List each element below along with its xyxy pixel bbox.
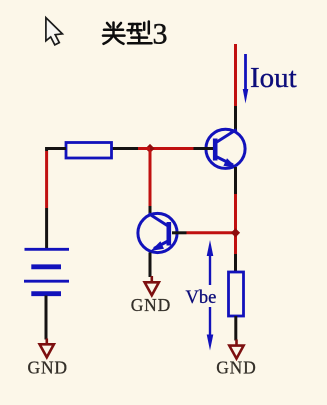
wire: to R2 (black) <box>234 254 237 272</box>
svg-text:GND: GND <box>28 358 68 378</box>
svg-text:3: 3 <box>153 18 168 51</box>
wire: Q2 base pin (black) <box>172 231 187 234</box>
wire: R1 right segment (black) <box>112 147 139 150</box>
wire: emitter net through J2 (red) <box>234 194 237 254</box>
wire: left branch lower (black) <box>45 208 48 249</box>
svg-text:Iout: Iout <box>250 62 297 94</box>
wire: Q2 emitter pin (black) <box>149 253 152 278</box>
annotation arrow Vbe upper <box>207 240 214 285</box>
wire: into junction J1 (red) <box>138 147 150 150</box>
wire: Q1 base pin (black) <box>194 147 214 150</box>
wire: Q2 collector pin (black) <box>149 206 152 215</box>
node junction J2 <box>231 228 240 237</box>
annotation arrow Vbe lower <box>207 307 214 351</box>
wire: R2 to ground (black) <box>234 316 237 341</box>
wire: Q1 collector pin (black) <box>234 106 237 131</box>
wire: top supply (red) <box>234 44 237 106</box>
svg-text:GND: GND <box>131 295 171 315</box>
svg-text:GND: GND <box>216 358 256 378</box>
title text 类型3 (drawn strokes) <box>103 22 152 44</box>
resistor R1 <box>66 143 112 159</box>
ground GND1 <box>40 339 54 358</box>
mouse cursor <box>46 18 63 45</box>
wire: battery to ground (black) <box>45 296 48 340</box>
ground GND3 <box>229 340 243 359</box>
node junction J1 <box>145 144 154 153</box>
wire: R1 left segment (black) <box>45 147 66 150</box>
wire: left branch upper (red) <box>45 151 48 208</box>
wire: corner cap (black) <box>45 147 48 151</box>
wire: Q1 emitter pin (black) <box>234 167 237 194</box>
battery BT1 <box>24 249 69 293</box>
resistor R2 <box>229 272 244 316</box>
wire: Q1 base net (red) <box>150 147 194 150</box>
transistor Q1 <box>206 129 245 168</box>
svg-text:Vbe: Vbe <box>186 288 217 308</box>
wire: J1 to Q2 collector (red) <box>149 150 152 206</box>
transistor Q2 <box>138 213 177 252</box>
wire: Q2 base net (red) <box>187 231 235 234</box>
current arrow Iout <box>243 54 249 104</box>
ground GND2 <box>145 276 159 295</box>
